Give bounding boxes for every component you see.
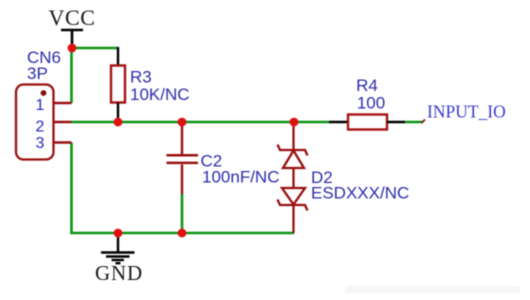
svg-text:1: 1 bbox=[36, 97, 45, 114]
power symbol VCC bbox=[61, 30, 83, 48]
junction node VCC bbox=[68, 44, 77, 53]
wire main net pin2 to R4 bbox=[72, 121, 330, 124]
zener bar bottom bbox=[278, 200, 308, 211]
junction node R3 bottom bbox=[114, 118, 123, 127]
connector CN6 bbox=[16, 85, 54, 160]
junction node C2 bottom bbox=[178, 229, 187, 238]
svg-text:3P: 3P bbox=[27, 64, 48, 83]
diode triangle bottom (cathode down) bbox=[282, 188, 305, 205]
pin 3 lead bbox=[54, 141, 72, 143]
TVS diode D2 bbox=[278, 122, 308, 233]
jpeg smudge bottom right bbox=[345, 286, 520, 293]
junction node GND bbox=[114, 229, 123, 238]
svg-text:2: 2 bbox=[36, 118, 45, 135]
resistor R4 bbox=[329, 121, 348, 123]
svg-text:10K/NC: 10K/NC bbox=[130, 85, 190, 104]
capacitor C2 bbox=[167, 124, 199, 194]
svg-text:ESDXXX/NC: ESDXXX/NC bbox=[311, 184, 409, 203]
resistor R3 bbox=[117, 47, 119, 66]
wire C2 bottom to ground rail bbox=[181, 194, 184, 233]
pin 1 lead bbox=[54, 102, 72, 104]
wire R4 to INPUT_IO port bbox=[405, 121, 422, 124]
pin 2 lead bbox=[54, 121, 72, 123]
connector key dot bbox=[41, 90, 47, 96]
svg-text:3: 3 bbox=[36, 135, 45, 152]
wire VCC to R3 top bbox=[72, 47, 118, 50]
svg-text:R3: R3 bbox=[130, 67, 152, 86]
svg-text:100nF/NC: 100nF/NC bbox=[202, 168, 279, 187]
junction node C2 top bbox=[178, 118, 187, 127]
svg-text:100: 100 bbox=[357, 94, 385, 113]
svg-text:INPUT_IO: INPUT_IO bbox=[427, 102, 506, 122]
svg-text:GND: GND bbox=[95, 261, 143, 285]
wire pin1 to VCC node bbox=[70, 48, 73, 103]
svg-text:R4: R4 bbox=[356, 76, 378, 95]
port tick bbox=[422, 120, 426, 124]
junction node D2 top bbox=[290, 118, 299, 127]
zener bar top bbox=[278, 145, 308, 156]
diode triangle top (cathode up) bbox=[283, 151, 304, 169]
svg-text:VCC: VCC bbox=[48, 5, 95, 30]
wire pin3 down to ground rail bbox=[72, 143, 295, 234]
ground bbox=[101, 233, 135, 263]
